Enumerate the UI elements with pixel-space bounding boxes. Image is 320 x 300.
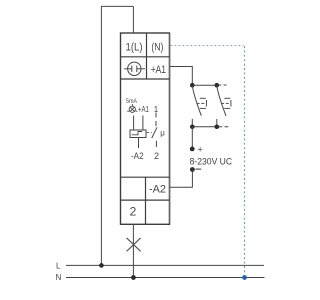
dashed N link from terminal (N) [171, 45, 244, 47]
local pushbutton symbol (circle with NO contact) [124, 62, 145, 75]
node supply plus [190, 147, 195, 152]
node L riser junction [99, 263, 104, 268]
lamp symbol (cross) [127, 238, 141, 251]
wire buttons to supply plus [191, 127, 193, 149]
wire top bridge [101, 5, 133, 7]
contact lead to 2 (dash) [155, 141, 157, 147]
wire glow-lamp to coil box [133, 116, 135, 131]
N line [66, 277, 265, 279]
pushbutton T2 actuator [221, 98, 231, 108]
wire drop into terminal 1(L) [132, 6, 134, 33]
node supply minus [190, 167, 195, 172]
pushbutton bottom rail [192, 126, 217, 128]
pushbutton T1 bottom lead [191, 119, 193, 127]
svg-text:μ: μ [160, 128, 165, 137]
coil lead to -A2 [138, 138, 140, 149]
svg-text:-A2: -A2 [131, 151, 144, 161]
dashed N riser (blue) [244, 46, 246, 278]
svg-text:8-230V UC: 8-230V UC [190, 157, 233, 167]
node button2 bottom [215, 125, 220, 130]
terminal block top: row divider 2 [121, 78, 170, 80]
node button2 top [215, 83, 220, 88]
contact blade [152, 127, 157, 138]
glow-lamp symbol [127, 104, 137, 112]
svg-text:1(L): 1(L) [126, 42, 143, 54]
svg-text:N: N [56, 273, 62, 282]
svg-text:5mA: 5mA [126, 98, 138, 105]
svg-text:L: L [56, 261, 61, 270]
wire terminal 2 to N line (through lamp) [132, 224, 134, 278]
L line [66, 264, 264, 266]
wire +A1 to pushbutton rail [170, 67, 192, 86]
coil box (electronics) [130, 130, 146, 138]
pushbutton T2 blade [217, 85, 226, 116]
pushbutton T1 actuator [197, 98, 207, 108]
terminal block bottom: row divider 2 [121, 199, 170, 201]
terminal block bottom: row divider 1 [121, 176, 170, 178]
step symbol inside coil box [132, 132, 143, 135]
terminal block top: column divider [146, 33, 148, 79]
svg-text:2: 2 [130, 205, 137, 219]
svg-text:-A2: -A2 [149, 183, 166, 195]
pushbutton top rail [192, 84, 217, 86]
svg-text:(N): (N) [151, 42, 163, 54]
mechanical link dashes coil to contact [147, 132, 152, 134]
label minus [195, 168, 201, 170]
terminal block bottom: column divider [145, 177, 147, 224]
terminal block top: row divider 1 [121, 56, 170, 58]
node N link junction (blue) [242, 275, 247, 280]
wire +A1 to coil box [142, 116, 144, 131]
device box right edge (thick gray) [169, 34, 171, 224]
svg-text:2: 2 [154, 151, 159, 161]
node button1 bottom [190, 125, 195, 130]
bottom rail continuation (dashed) [219, 126, 229, 128]
top rail continuation (dashed) [217, 84, 227, 86]
svg-text:+A1: +A1 [138, 105, 149, 114]
svg-text:+A1: +A1 [151, 64, 166, 76]
pushbutton T2 bottom lead [216, 119, 218, 127]
node lamp-N junction [131, 275, 136, 280]
device box outline [121, 33, 170, 224]
contact lead from 1 (dashed) [155, 113, 157, 128]
wire supply minus to terminal -A2 [170, 170, 192, 188]
wire L riser (left vertical from L line to top bridge) [100, 6, 102, 265]
svg-text:+: + [198, 145, 203, 155]
pushbutton T1 blade [192, 85, 201, 115]
node button1 top [190, 83, 195, 88]
